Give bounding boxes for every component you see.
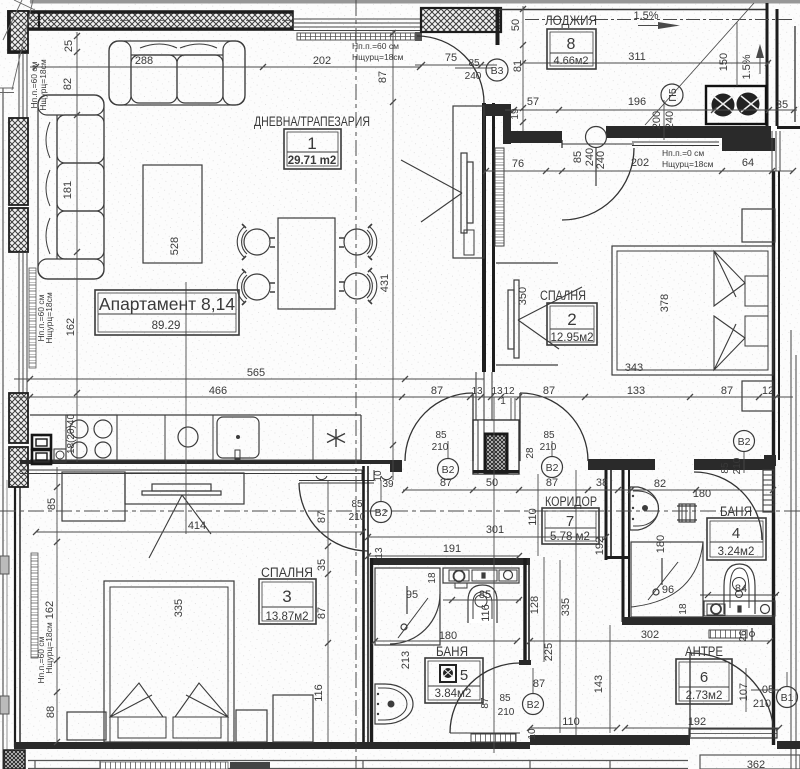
bath 4 toilet <box>724 564 755 614</box>
kitchen small cab w/ circle <box>54 449 66 462</box>
dining table <box>278 218 335 309</box>
dim row 82/180 bath4 <box>628 487 776 493</box>
svg-text:5.78 м2: 5.78 м2 <box>550 531 590 543</box>
right outer wall (window segment then wall) <box>772 131 780 171</box>
svg-text:10: 10 <box>373 470 384 482</box>
bedroom3 east wall <box>364 466 369 742</box>
svg-text:350: 350 <box>517 287 529 305</box>
svg-text:75: 75 <box>445 52 457 64</box>
svg-text:362: 362 <box>747 759 765 769</box>
neighbour balcony diagonals top-left <box>0 0 35 93</box>
bath 5 washbasin <box>375 684 413 724</box>
svg-text:2.73м2: 2.73м2 <box>686 690 723 702</box>
svg-text:202: 202 <box>313 55 331 67</box>
bedroom 2 bed <box>612 246 773 375</box>
dim row 414 bedroom3 <box>33 529 366 535</box>
bedroom 3 tv sideboard <box>125 473 244 504</box>
svg-text:240: 240 <box>584 148 596 166</box>
svg-text:85: 85 <box>543 430 555 441</box>
coffee table <box>143 165 202 263</box>
bath 4 dim line 84 <box>700 592 779 598</box>
dim col left bedroom3 x57 <box>54 467 60 745</box>
svg-text:19: 19 <box>510 108 521 120</box>
ventilation shaft block in corridor <box>473 398 519 474</box>
svg-text:288: 288 <box>135 55 153 67</box>
svg-text:162: 162 <box>44 601 56 619</box>
svg-text:87: 87 <box>431 385 443 397</box>
dim col x494 <box>493 397 495 753</box>
svg-text:В2: В2 <box>442 464 455 476</box>
svg-text:12.95м2: 12.95м2 <box>550 332 593 344</box>
dim row 302 antre <box>527 638 773 644</box>
svg-text:210: 210 <box>753 698 771 710</box>
bath 5 shower <box>375 568 440 645</box>
svg-text:528: 528 <box>169 237 181 255</box>
svg-text:Нщурц=18см: Нщурц=18см <box>352 52 404 62</box>
kitchen counter <box>30 415 361 460</box>
dim row top (288/202) <box>30 64 423 70</box>
svg-text:13: 13 <box>471 386 483 397</box>
svg-text:87: 87 <box>377 71 389 83</box>
kitchen stove 4 burners <box>66 415 117 460</box>
svg-text:СПАЛНЯ: СПАЛНЯ <box>540 288 586 303</box>
top-right hatched wall block <box>421 8 501 45</box>
sofa vertical (3-seater) <box>38 95 104 279</box>
svg-text:64: 64 <box>742 157 754 169</box>
bedroom 3 bed <box>104 581 234 742</box>
bedroom 3 area box <box>259 579 316 624</box>
apartment bottom wall <box>14 742 530 749</box>
svg-text:Нщурц=18см: Нщурц=18см <box>662 159 714 169</box>
svg-text:335: 335 <box>560 598 572 616</box>
svg-text:05: 05 <box>762 684 774 696</box>
svg-text:311: 311 <box>628 51 646 63</box>
left wall hatched segment 3 <box>9 208 28 252</box>
antre area box 6 <box>676 659 732 704</box>
circled letters <box>371 59 798 715</box>
dim col bedroom3 right x328 <box>325 480 331 742</box>
svg-text:565: 565 <box>247 367 265 379</box>
svg-text:3.84м2: 3.84м2 <box>435 688 472 700</box>
top hatched wall band <box>8 11 293 30</box>
section line horizontal <box>0 510 800 512</box>
svg-text:50: 50 <box>510 19 522 31</box>
svg-text:Нп.п.=0 см: Нп.п.=0 см <box>662 148 704 158</box>
left wall window 1 <box>19 53 27 118</box>
dim col corridor bottom (143/225) <box>609 625 611 733</box>
dining chair bottom-right <box>339 268 377 304</box>
svg-text:213: 213 <box>400 651 412 669</box>
svg-text:88: 88 <box>45 706 57 718</box>
svg-text:180: 180 <box>439 630 457 642</box>
top-left corner hatched block <box>8 11 28 53</box>
left wall hatched segment 4 <box>9 393 28 443</box>
bath 5 area box <box>425 658 483 703</box>
bottom-left corner hatch <box>4 750 25 769</box>
bath 5 vanity top <box>443 568 519 588</box>
loggia / bedroom2 wall <box>505 131 562 143</box>
svg-text:6: 6 <box>700 669 708 686</box>
svg-text:1.5%: 1.5% <box>633 10 658 22</box>
svg-text:БАНЯ: БАНЯ <box>436 644 468 659</box>
svg-text:210: 210 <box>498 707 515 718</box>
loggia slope arrow horizontal <box>525 20 795 30</box>
corridor to bedroom 2 door <box>519 393 521 461</box>
dim row 57/196/35 <box>505 107 797 113</box>
svg-text:85: 85 <box>572 151 584 163</box>
svg-text:200: 200 <box>651 111 663 129</box>
svg-text:89.29: 89.29 <box>152 320 181 332</box>
main interior wall living/bedroom2 (double) <box>484 103 494 372</box>
dim row 85/116 bath5 <box>443 597 522 603</box>
svg-text:84: 84 <box>735 583 747 595</box>
svg-text:В3: В3 <box>491 65 504 77</box>
svg-text:1.5%: 1.5% <box>741 54 753 79</box>
loggia door from bedroom 2 <box>562 148 634 220</box>
dim col x393 (87/431) <box>390 30 396 480</box>
bedroom 3 TV shelf <box>142 484 221 558</box>
svg-text:431: 431 <box>379 274 391 292</box>
left wall hatched segment 5 <box>9 447 28 487</box>
svg-text:85: 85 <box>351 499 363 510</box>
loggia slope arrow vertical <box>756 44 764 74</box>
svg-text:87: 87 <box>546 477 558 489</box>
svg-text:3: 3 <box>282 587 291 606</box>
svg-text:210: 210 <box>540 442 557 453</box>
svg-text:В2: В2 <box>738 436 751 448</box>
svg-text:4: 4 <box>732 525 740 542</box>
kitchen dishwasher asterisk <box>327 429 345 447</box>
dim col left x77 <box>74 32 80 462</box>
svg-text:50: 50 <box>486 477 498 489</box>
svg-text:БАНЯ: БАНЯ <box>720 504 752 519</box>
kitchen / bedroom3 wall <box>20 460 392 464</box>
svg-text:29.71 m2: 29.71 m2 <box>288 155 337 167</box>
svg-text:18(20)40: 18(20)40 <box>66 414 77 454</box>
svg-text:ДНЕВНА/ТРАПЕЗАРИЯ: ДНЕВНА/ТРАПЕЗАРИЯ <box>254 114 370 129</box>
svg-text:107: 107 <box>738 683 750 701</box>
kitchen round sink <box>178 427 198 447</box>
neighbour apartment strip bottom <box>28 760 688 769</box>
dim col 200/240 loggia door <box>663 100 665 140</box>
svg-text:12: 12 <box>762 385 774 397</box>
svg-text:225: 225 <box>543 643 555 661</box>
dim row 192 antre <box>622 725 782 731</box>
bath 4 area box <box>707 518 766 560</box>
svg-text:В2: В2 <box>546 462 559 474</box>
dim row 565 <box>14 376 484 382</box>
bath 4 radiator <box>677 504 697 522</box>
bath 4 vanity bottom <box>704 601 775 616</box>
svg-text:76: 76 <box>512 158 524 170</box>
dim col x186 <box>185 282 187 534</box>
living room TV on wall <box>401 153 473 233</box>
left wall hatched segment 2 <box>9 118 28 205</box>
dining chair top-left <box>237 224 275 260</box>
dim row 202/64 right <box>483 168 796 174</box>
svg-text:180: 180 <box>655 535 667 553</box>
wall continuation above shaft <box>476 372 492 420</box>
svg-text:13.87м2: 13.87м2 <box>265 611 308 623</box>
dim row 180 bath5 <box>372 638 520 644</box>
dim col x523 (50/81/19) <box>520 6 526 131</box>
svg-text:302: 302 <box>641 629 659 641</box>
svg-text:18: 18 <box>427 572 438 584</box>
loggia door from living room <box>417 36 484 103</box>
svg-text:85: 85 <box>720 462 731 474</box>
loggia bottom wall piece <box>483 104 509 116</box>
svg-text:87: 87 <box>316 511 328 523</box>
dining chair bottom-left <box>237 269 275 305</box>
loggia area box 8 <box>547 29 596 69</box>
kitchen square sink <box>217 417 259 459</box>
entry threshold <box>689 729 777 738</box>
corridor east / bath4 west duct walls <box>606 470 629 622</box>
loggia thin top wall <box>500 9 768 11</box>
dim row 301 <box>365 534 609 540</box>
bath 4 shower <box>631 542 703 617</box>
bedroom 3 dresser <box>273 695 313 742</box>
svg-text:82: 82 <box>654 478 666 490</box>
bath 5 washing machine icon <box>440 665 456 682</box>
svg-text:162: 162 <box>65 318 77 336</box>
svg-text:181: 181 <box>62 181 74 199</box>
svg-text:85: 85 <box>479 589 491 601</box>
svg-text:378: 378 <box>659 294 671 312</box>
svg-text:13: 13 <box>374 547 385 559</box>
svg-text:7: 7 <box>566 513 574 530</box>
bedroom 3 west radiator <box>31 553 38 658</box>
svg-text:39: 39 <box>382 479 394 490</box>
svg-text:Апартамент 8,14: Апартамент 8,14 <box>99 294 235 314</box>
svg-text:85: 85 <box>435 430 447 441</box>
svg-text:28: 28 <box>525 447 536 459</box>
svg-text:192: 192 <box>594 537 606 555</box>
svg-text:3.24м2: 3.24м2 <box>718 546 755 558</box>
bath5 walls <box>370 558 531 747</box>
apartment label box <box>95 290 239 335</box>
svg-text:85: 85 <box>46 498 58 510</box>
bath 4 washbasin <box>630 487 659 530</box>
svg-text:Нп.п.=60 см: Нп.п.=60 см <box>352 41 399 51</box>
dim row corridor 87/50/87/38 <box>402 487 634 493</box>
left wall window 2 (french window) <box>19 252 27 393</box>
svg-text:414: 414 <box>188 520 206 532</box>
svg-text:4.66м2: 4.66м2 <box>553 55 588 67</box>
top window strip (living room north window) <box>293 19 420 31</box>
scan top edge band <box>30 0 800 4</box>
bedroom 2 stool bottom <box>742 381 773 411</box>
bedroom 2 area box <box>547 303 597 345</box>
dim row 110 corridor bottom <box>527 725 620 731</box>
living room west radiator <box>29 268 36 368</box>
dim row 311 <box>520 60 771 66</box>
svg-text:1: 1 <box>500 396 506 407</box>
shaft ladder strip between living and bedroom2 <box>495 148 504 246</box>
svg-text:87: 87 <box>721 385 733 397</box>
svg-text:301: 301 <box>486 524 504 536</box>
bedroom 2 TV unit <box>496 263 582 365</box>
svg-text:210: 210 <box>732 457 743 474</box>
dim row 466 full width <box>14 394 793 400</box>
svg-text:87: 87 <box>316 607 328 619</box>
svg-text:210: 210 <box>432 442 449 453</box>
svg-text:25: 25 <box>63 40 75 52</box>
entry door <box>689 653 691 737</box>
svg-text:П5: П5 <box>667 88 679 102</box>
svg-text:87: 87 <box>533 678 545 690</box>
svg-text:10: 10 <box>527 728 538 740</box>
svg-text:116: 116 <box>480 604 492 622</box>
svg-text:87: 87 <box>543 385 555 397</box>
bath 5 door <box>450 663 520 733</box>
svg-text:240: 240 <box>465 71 482 82</box>
svg-text:38: 38 <box>596 477 608 489</box>
dining chair top-right <box>339 224 377 260</box>
svg-text:Нщурц=18см: Нщурц=18см <box>44 292 54 344</box>
svg-text:210: 210 <box>349 512 366 523</box>
svg-text:110: 110 <box>527 508 539 526</box>
svg-text:85: 85 <box>499 693 511 704</box>
svg-text:5: 5 <box>460 667 468 684</box>
balcony rail strip under top window <box>297 33 415 40</box>
dim row 191 <box>365 553 522 559</box>
dim row 75 (loggia door) <box>415 62 497 68</box>
svg-text:96: 96 <box>662 584 674 596</box>
svg-text:8: 8 <box>567 36 576 53</box>
svg-text:СПАЛНЯ: СПАЛНЯ <box>261 565 313 580</box>
svg-text:343: 343 <box>625 362 643 374</box>
svg-text:196: 196 <box>628 96 646 108</box>
svg-text:133: 133 <box>627 385 645 397</box>
svg-text:82: 82 <box>62 78 74 90</box>
svg-text:128: 128 <box>529 596 541 614</box>
svg-text:1: 1 <box>307 134 316 153</box>
svg-text:В2: В2 <box>527 699 540 711</box>
svg-text:466: 466 <box>209 385 227 397</box>
svg-text:В2: В2 <box>375 507 388 519</box>
bedroom 3 door <box>299 483 368 551</box>
svg-text:81: 81 <box>512 60 524 72</box>
living room to corridor door <box>472 393 474 461</box>
svg-text:335: 335 <box>173 599 185 617</box>
bath5 floor vent strip <box>471 734 516 742</box>
svg-text:ЛОДЖИЯ: ЛОДЖИЯ <box>545 13 597 28</box>
svg-text:143: 143 <box>593 675 605 693</box>
dim col 150 loggia <box>736 22 738 86</box>
bedroom 3 nightstand left <box>67 712 106 740</box>
loggia lamp symbol <box>586 127 607 148</box>
svg-text:180: 180 <box>693 488 711 500</box>
loggia right double wall <box>767 3 800 131</box>
svg-text:150: 150 <box>718 53 730 71</box>
kitchen oven (dark squares) <box>32 435 51 464</box>
bath4 south wall <box>622 617 775 625</box>
living room bookshelf next to wall <box>453 106 484 258</box>
neighbour wall strip far right <box>791 330 796 769</box>
svg-text:192: 192 <box>688 716 706 728</box>
svg-text:Нщурц=18см: Нщурц=18см <box>38 59 48 111</box>
svg-text:95: 95 <box>406 589 418 601</box>
svg-text:240: 240 <box>595 151 607 169</box>
section line vertical <box>355 0 357 769</box>
bedroom2 south wall <box>588 459 655 470</box>
loggia washing machine (dark) <box>706 86 766 124</box>
svg-text:202: 202 <box>631 157 649 169</box>
corridor area box 7 <box>542 508 599 544</box>
outer terrace line far left <box>2 88 4 769</box>
loggia diagonal <box>645 3 754 125</box>
bedroom 3 nightstand right <box>236 710 267 742</box>
svg-text:110: 110 <box>562 716 580 728</box>
svg-text:191: 191 <box>443 543 461 555</box>
dim col corridor x538 (110) <box>537 474 539 556</box>
living room area box 1 <box>284 129 341 169</box>
svg-text:116: 116 <box>313 684 325 702</box>
antre towel radiator below bath4 <box>709 628 755 641</box>
svg-text:240: 240 <box>664 111 676 129</box>
svg-text:18: 18 <box>678 603 689 615</box>
svg-text:2: 2 <box>567 310 576 329</box>
svg-text:КОРИДОР: КОРИДОР <box>545 494 597 509</box>
bedroom2 north wall <box>606 126 771 138</box>
svg-text:АНТРЕ: АНТРЕ <box>685 644 723 659</box>
bath 4 door <box>694 472 762 540</box>
svg-text:26: 26 <box>738 630 749 642</box>
svg-text:Нщурц=18см: Нщурц=18см <box>44 622 54 674</box>
bedroom 3 wardrobe top-left <box>62 472 125 521</box>
sofa horizontal (2-seater) <box>109 41 245 105</box>
svg-text:57: 57 <box>527 96 539 108</box>
svg-text:85: 85 <box>468 58 480 69</box>
svg-text:87: 87 <box>480 697 491 709</box>
bath 5 toilet <box>468 585 497 623</box>
left lower wall (bedroom 3) <box>15 487 20 747</box>
leader lines for door notes <box>381 441 787 712</box>
bedroom 2 nightstand top <box>742 209 775 242</box>
bath 4 towel radiator right <box>763 470 774 512</box>
svg-text:В1: В1 <box>781 692 794 704</box>
svg-text:35: 35 <box>776 99 788 111</box>
svg-text:35: 35 <box>316 559 328 571</box>
